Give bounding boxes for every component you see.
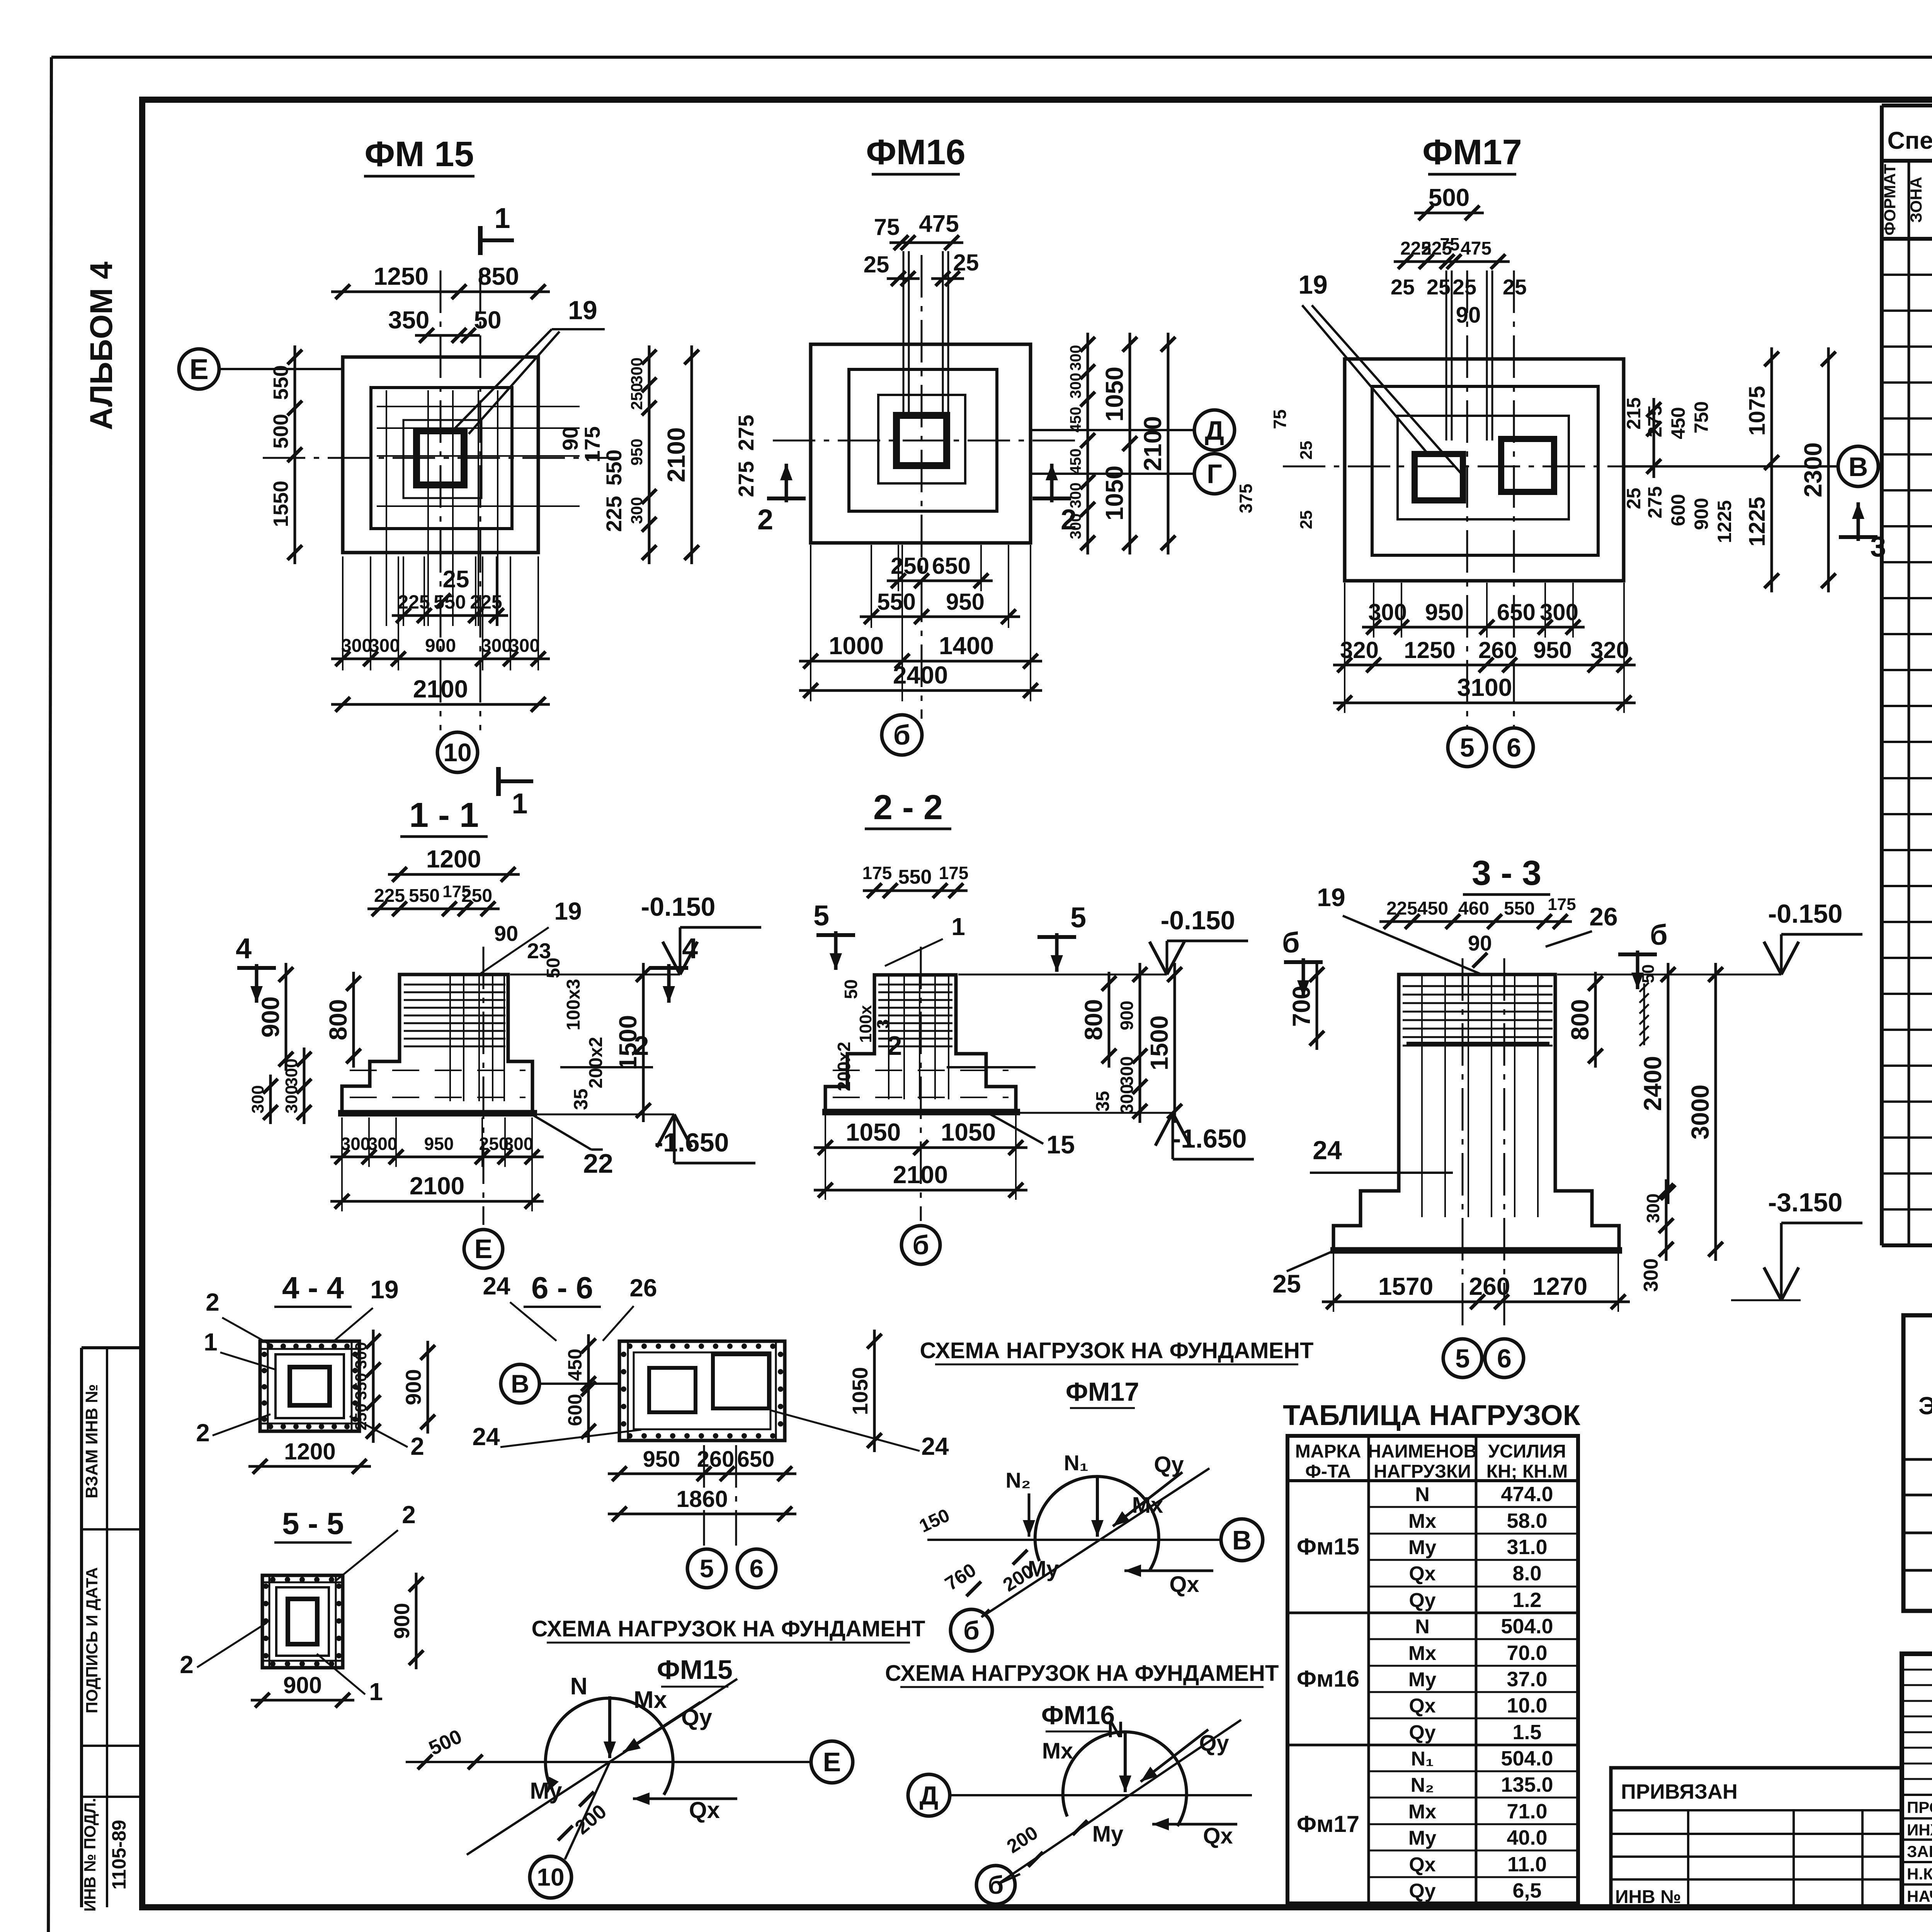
svg-text:900: 900 bbox=[389, 1603, 414, 1639]
svg-text:450: 450 bbox=[1417, 898, 1448, 919]
svg-text:300: 300 bbox=[282, 1058, 301, 1087]
svg-text:500: 500 bbox=[269, 414, 293, 449]
svg-text:-1.650: -1.650 bbox=[1172, 1124, 1247, 1153]
svg-text:б: б bbox=[1282, 927, 1300, 959]
svg-text:Qу: Qу bbox=[1154, 1452, 1184, 1477]
svg-text:ПОДПИСЬ И ДАТА: ПОДПИСЬ И ДАТА bbox=[83, 1567, 101, 1713]
svg-text:950: 950 bbox=[946, 589, 985, 615]
svg-text:225: 225 bbox=[374, 886, 405, 906]
svg-text:УСИЛИЯ: УСИЛИЯ bbox=[1488, 1441, 1566, 1462]
svg-text:10.0: 10.0 bbox=[1507, 1694, 1547, 1717]
svg-text:ЗАВ.ГРУП: ЗАВ.ГРУП bbox=[1907, 1842, 1932, 1861]
svg-text:1050: 1050 bbox=[941, 1118, 996, 1146]
svg-text:Фм15: Фм15 bbox=[1297, 1534, 1359, 1560]
svg-text:1400: 1400 bbox=[939, 632, 994, 660]
svg-text:ИНВ №: ИНВ № bbox=[1615, 1887, 1681, 1907]
svg-text:900: 900 bbox=[257, 997, 284, 1038]
svg-text:474.0: 474.0 bbox=[1501, 1483, 1553, 1506]
svg-text:24: 24 bbox=[921, 1432, 949, 1460]
svg-text:МАРКА: МАРКА bbox=[1295, 1441, 1361, 1462]
svg-text:ЗОНА: ЗОНА bbox=[1907, 177, 1925, 223]
svg-text:950: 950 bbox=[424, 1134, 454, 1154]
svg-text:6: 6 bbox=[1497, 1344, 1512, 1373]
svg-text:1270: 1270 bbox=[1532, 1272, 1587, 1300]
svg-text:175: 175 bbox=[939, 863, 969, 883]
svg-text:Мх: Мх bbox=[1408, 1510, 1436, 1532]
svg-text:225: 225 bbox=[398, 591, 430, 613]
svg-text:90: 90 bbox=[558, 427, 582, 451]
svg-text:950: 950 bbox=[643, 1447, 680, 1472]
svg-text:1.5: 1.5 bbox=[1512, 1721, 1541, 1744]
svg-text:Qу: Qу bbox=[1409, 1880, 1435, 1902]
svg-text:900: 900 bbox=[1117, 1001, 1137, 1031]
svg-text:2: 2 bbox=[1061, 503, 1077, 536]
svg-text:Qх: Qх bbox=[1169, 1572, 1199, 1597]
svg-text:Д: Д bbox=[1205, 415, 1224, 446]
svg-text:550: 550 bbox=[877, 589, 916, 615]
svg-text:Qу: Qу bbox=[1409, 1589, 1435, 1612]
svg-text:450: 450 bbox=[1667, 407, 1689, 439]
svg-text:В: В bbox=[1849, 452, 1868, 482]
svg-text:б: б bbox=[1650, 919, 1668, 951]
svg-text:Му: Му bbox=[1092, 1821, 1124, 1847]
svg-text:2: 2 bbox=[206, 1288, 219, 1316]
svg-text:2100: 2100 bbox=[410, 1172, 464, 1200]
svg-text:275: 275 bbox=[734, 415, 758, 451]
svg-text:ИНЖ.1КАТ: ИНЖ.1КАТ bbox=[1907, 1821, 1932, 1839]
svg-text:25: 25 bbox=[1297, 510, 1316, 529]
svg-text:200х2: 200х2 bbox=[834, 1042, 854, 1091]
svg-text:275: 275 bbox=[1644, 486, 1666, 518]
svg-text:1550: 1550 bbox=[269, 481, 293, 527]
svg-text:б: б bbox=[988, 1871, 1004, 1899]
svg-text:25: 25 bbox=[864, 252, 889, 277]
svg-text:ЭЛЕМЕНТА: ЭЛЕМЕНТА bbox=[1918, 1392, 1932, 1420]
svg-text:31.0: 31.0 bbox=[1507, 1536, 1547, 1559]
svg-text:ПРИВЯЗАН: ПРИВЯЗАН bbox=[1621, 1780, 1738, 1803]
svg-text:300: 300 bbox=[1067, 345, 1084, 371]
svg-text:300: 300 bbox=[509, 636, 540, 656]
svg-text:1075: 1075 bbox=[1745, 386, 1770, 435]
svg-text:19: 19 bbox=[554, 897, 582, 925]
svg-text:1050: 1050 bbox=[848, 1367, 872, 1415]
svg-text:В: В bbox=[1232, 1525, 1252, 1555]
svg-text:1105-89: 1105-89 bbox=[108, 1820, 130, 1890]
svg-text:650: 650 bbox=[932, 553, 971, 579]
svg-text:1050: 1050 bbox=[1100, 367, 1128, 422]
svg-text:300: 300 bbox=[369, 636, 400, 656]
svg-text:800: 800 bbox=[1566, 999, 1594, 1041]
svg-text:1: 1 bbox=[512, 787, 527, 820]
svg-text:950: 950 bbox=[1425, 599, 1464, 625]
svg-text:ФМ17: ФМ17 bbox=[1422, 133, 1522, 172]
svg-text:460: 460 bbox=[1458, 898, 1489, 919]
svg-text:Му: Му bbox=[1408, 1668, 1436, 1691]
svg-text:300: 300 bbox=[1117, 1084, 1137, 1114]
svg-text:350: 350 bbox=[352, 1373, 370, 1400]
svg-text:3000: 3000 bbox=[1686, 1085, 1714, 1139]
svg-text:б: б bbox=[893, 720, 910, 751]
svg-text:2: 2 bbox=[634, 1031, 649, 1061]
svg-text:300: 300 bbox=[368, 1134, 398, 1154]
svg-text:800: 800 bbox=[1080, 999, 1107, 1041]
svg-text:500: 500 bbox=[1429, 184, 1470, 211]
svg-text:19: 19 bbox=[1298, 270, 1328, 299]
svg-text:320: 320 bbox=[1340, 637, 1379, 663]
svg-text:275: 275 bbox=[1644, 405, 1666, 437]
svg-text:СХЕМА НАГРУЗОК НА ФУНДАМЕНТ: СХЕМА НАГРУЗОК НА ФУНДАМЕНТ bbox=[920, 1338, 1314, 1363]
svg-text:4: 4 bbox=[682, 932, 698, 964]
svg-text:СХЕМА НАГРУЗОК НА ФУНДАМЕНТ: СХЕМА НАГРУЗОК НА ФУНДАМЕНТ bbox=[885, 1661, 1279, 1686]
svg-text:Е: Е bbox=[189, 353, 208, 385]
svg-text:35: 35 bbox=[570, 1088, 592, 1110]
svg-text:19: 19 bbox=[370, 1275, 398, 1304]
svg-text:90: 90 bbox=[494, 921, 518, 946]
svg-text:75: 75 bbox=[874, 214, 900, 240]
svg-text:Е: Е bbox=[823, 1747, 841, 1777]
svg-text:Му: Му bbox=[1408, 1827, 1436, 1849]
svg-text:Фм16: Фм16 bbox=[1297, 1666, 1359, 1692]
svg-text:550: 550 bbox=[898, 866, 932, 888]
svg-text:АЛЬБОМ 4: АЛЬБОМ 4 bbox=[84, 262, 119, 430]
svg-text:ТАБЛИЦА НАГРУЗОК: ТАБЛИЦА НАГРУЗОК bbox=[1283, 1399, 1581, 1431]
svg-text:Мх: Мх bbox=[1132, 1493, 1163, 1518]
svg-text:N: N bbox=[1107, 1717, 1124, 1742]
svg-text:950: 950 bbox=[1533, 637, 1572, 663]
svg-text:175: 175 bbox=[580, 426, 604, 462]
svg-text:300: 300 bbox=[481, 636, 512, 656]
svg-text:3: 3 bbox=[874, 1019, 893, 1029]
svg-text:2: 2 bbox=[887, 1031, 902, 1061]
svg-text:225: 225 bbox=[470, 591, 502, 613]
svg-text:250: 250 bbox=[352, 1403, 370, 1430]
svg-text:50: 50 bbox=[474, 306, 501, 334]
svg-text:Н.КОНТР.: Н.КОНТР. bbox=[1907, 1865, 1932, 1883]
svg-text:25: 25 bbox=[1297, 441, 1316, 460]
svg-text:300: 300 bbox=[341, 636, 372, 656]
svg-text:350: 350 bbox=[388, 306, 430, 334]
svg-text:37.0: 37.0 bbox=[1507, 1668, 1547, 1691]
svg-text:19: 19 bbox=[568, 296, 597, 325]
svg-text:6: 6 bbox=[1507, 733, 1521, 762]
svg-text:10: 10 bbox=[443, 738, 471, 767]
svg-text:650: 650 bbox=[1497, 599, 1536, 625]
svg-text:450: 450 bbox=[1067, 449, 1084, 474]
svg-text:25: 25 bbox=[1427, 275, 1451, 299]
svg-text:Мх: Мх bbox=[634, 1687, 667, 1713]
svg-text:504.0: 504.0 bbox=[1501, 1615, 1553, 1638]
svg-text:250: 250 bbox=[891, 553, 929, 579]
svg-text:НАЧ.ОТД.: НАЧ.ОТД. bbox=[1907, 1887, 1932, 1905]
svg-text:ФМ16: ФМ16 bbox=[1041, 1701, 1115, 1730]
svg-text:58.0: 58.0 bbox=[1507, 1509, 1547, 1532]
svg-text:6,5: 6,5 bbox=[1512, 1879, 1541, 1902]
svg-text:3100: 3100 bbox=[1457, 673, 1512, 701]
svg-text:24: 24 bbox=[472, 1423, 500, 1451]
svg-text:Ф-ТА: Ф-ТА bbox=[1305, 1461, 1351, 1482]
svg-text:300: 300 bbox=[1640, 1259, 1662, 1292]
svg-text:Фм17: Фм17 bbox=[1297, 1811, 1359, 1837]
svg-text:Qу: Qу bbox=[681, 1704, 713, 1730]
svg-text:900: 900 bbox=[283, 1672, 322, 1698]
svg-text:1500: 1500 bbox=[1145, 1015, 1173, 1070]
svg-text:10: 10 bbox=[537, 1863, 564, 1891]
svg-text:5: 5 bbox=[700, 1554, 714, 1583]
svg-text:6: 6 bbox=[750, 1554, 764, 1583]
svg-text:1: 1 bbox=[951, 913, 965, 940]
svg-text:26: 26 bbox=[1589, 902, 1617, 931]
svg-text:Му: Му bbox=[1408, 1536, 1436, 1559]
svg-text:НАГРУЗКИ: НАГРУЗКИ bbox=[1374, 1461, 1471, 1482]
svg-text:2: 2 bbox=[757, 503, 773, 536]
svg-text:8.0: 8.0 bbox=[1512, 1562, 1541, 1585]
svg-text:В: В bbox=[511, 1369, 529, 1398]
svg-text:Qу: Qу bbox=[1199, 1731, 1229, 1756]
svg-text:100х3: 100х3 bbox=[563, 979, 584, 1030]
svg-text:Спецификация монолитных фунд: Спецификация монолитных фундаментов Фм15… bbox=[1887, 127, 1932, 154]
svg-text:Му: Му bbox=[530, 1778, 562, 1804]
svg-text:700: 700 bbox=[1287, 986, 1315, 1027]
svg-text:300: 300 bbox=[1067, 373, 1084, 399]
svg-text:900: 900 bbox=[425, 636, 456, 656]
svg-text:900: 900 bbox=[401, 1369, 425, 1405]
svg-text:450: 450 bbox=[1067, 407, 1084, 433]
svg-text:550: 550 bbox=[434, 591, 466, 613]
svg-text:550: 550 bbox=[1504, 898, 1535, 919]
svg-text:2: 2 bbox=[196, 1419, 210, 1447]
svg-text:б: б bbox=[912, 1230, 929, 1260]
svg-text:300: 300 bbox=[1117, 1056, 1137, 1086]
svg-text:4 - 4: 4 - 4 bbox=[282, 1270, 344, 1305]
svg-text:Qх: Qх bbox=[1203, 1823, 1233, 1849]
svg-text:N₂: N₂ bbox=[1005, 1468, 1031, 1492]
svg-text:4: 4 bbox=[236, 932, 252, 964]
svg-text:26: 26 bbox=[629, 1274, 657, 1302]
svg-text:ФМ15: ФМ15 bbox=[657, 1655, 733, 1685]
svg-text:550: 550 bbox=[409, 886, 440, 906]
svg-text:300: 300 bbox=[1643, 1194, 1663, 1223]
svg-text:-0.150: -0.150 bbox=[1161, 906, 1235, 935]
svg-text:2: 2 bbox=[402, 1501, 416, 1529]
svg-text:24: 24 bbox=[483, 1272, 510, 1300]
svg-text:2400: 2400 bbox=[1639, 1056, 1667, 1111]
svg-text:Е: Е bbox=[474, 1234, 493, 1264]
svg-text:260: 260 bbox=[1478, 637, 1517, 663]
svg-text:1200: 1200 bbox=[426, 845, 481, 873]
svg-text:35: 35 bbox=[1093, 1091, 1113, 1111]
svg-text:Qх: Qх bbox=[1409, 1695, 1435, 1717]
svg-text:-1.650: -1.650 bbox=[655, 1128, 729, 1157]
svg-text:300: 300 bbox=[628, 357, 646, 384]
svg-text:40.0: 40.0 bbox=[1507, 1826, 1547, 1849]
svg-text:75: 75 bbox=[1270, 409, 1290, 429]
svg-text:3: 3 bbox=[1870, 531, 1886, 563]
svg-text:Д: Д bbox=[920, 1781, 938, 1810]
svg-text:25: 25 bbox=[1391, 275, 1415, 299]
svg-text:550: 550 bbox=[602, 449, 626, 485]
svg-text:1.2: 1.2 bbox=[1512, 1588, 1541, 1612]
svg-text:22: 22 bbox=[583, 1148, 613, 1179]
svg-text:175: 175 bbox=[1548, 895, 1576, 914]
svg-text:90: 90 bbox=[1456, 303, 1481, 328]
svg-text:15: 15 bbox=[1046, 1130, 1075, 1159]
svg-text:N₁: N₁ bbox=[1064, 1451, 1088, 1475]
svg-text:N₂: N₂ bbox=[1411, 1774, 1434, 1796]
svg-text:1000: 1000 bbox=[829, 632, 884, 660]
svg-text:-0.150: -0.150 bbox=[1768, 899, 1843, 929]
svg-text:1: 1 bbox=[204, 1328, 218, 1356]
svg-text:1050: 1050 bbox=[846, 1118, 901, 1146]
svg-text:б: б bbox=[963, 1616, 980, 1645]
svg-text:175: 175 bbox=[862, 863, 892, 883]
svg-text:175: 175 bbox=[442, 882, 471, 901]
svg-text:5: 5 bbox=[813, 900, 829, 932]
svg-text:25: 25 bbox=[443, 566, 469, 593]
svg-text:25: 25 bbox=[1452, 275, 1476, 299]
svg-text:300: 300 bbox=[282, 1085, 301, 1113]
svg-text:300: 300 bbox=[341, 1134, 371, 1154]
svg-text:Qу: Qу bbox=[1409, 1721, 1435, 1744]
svg-text:2300: 2300 bbox=[1799, 442, 1827, 497]
svg-text:275: 275 bbox=[734, 461, 758, 497]
svg-text:Qх: Qх bbox=[1409, 1563, 1435, 1585]
svg-text:2100: 2100 bbox=[413, 675, 468, 703]
svg-text:25: 25 bbox=[1272, 1269, 1301, 1298]
svg-text:300: 300 bbox=[352, 1342, 370, 1369]
svg-text:70.0: 70.0 bbox=[1507, 1641, 1547, 1665]
svg-text:250: 250 bbox=[628, 383, 646, 410]
svg-text:200х2: 200х2 bbox=[586, 1037, 606, 1088]
svg-text:1: 1 bbox=[494, 202, 510, 234]
svg-text:300: 300 bbox=[248, 1085, 267, 1113]
svg-text:N: N bbox=[570, 1673, 588, 1700]
svg-text:375: 375 bbox=[1236, 484, 1256, 514]
svg-text:1: 1 bbox=[369, 1678, 383, 1706]
svg-text:3 - 3: 3 - 3 bbox=[1472, 854, 1541, 893]
svg-text:СХЕМА НАГРУЗОК НА ФУНДАМЕНТ: СХЕМА НАГРУЗОК НА ФУНДАМЕНТ bbox=[532, 1616, 925, 1641]
svg-text:475: 475 bbox=[1461, 238, 1492, 259]
svg-text:5: 5 bbox=[1070, 901, 1086, 934]
svg-text:950: 950 bbox=[628, 439, 646, 466]
svg-text:5: 5 bbox=[1460, 733, 1475, 762]
svg-text:N₁: N₁ bbox=[1411, 1748, 1434, 1770]
svg-text:ВЗАМ ИНВ №: ВЗАМ ИНВ № bbox=[82, 1384, 101, 1498]
svg-text:2100: 2100 bbox=[1139, 416, 1167, 471]
svg-text:ПРОВЕР.: ПРОВЕР. bbox=[1907, 1798, 1932, 1816]
svg-text:2100: 2100 bbox=[662, 427, 690, 482]
svg-text:N: N bbox=[1415, 1483, 1430, 1506]
svg-text:475: 475 bbox=[919, 211, 959, 237]
svg-text:260: 260 bbox=[697, 1447, 735, 1472]
svg-text:ФМ17: ФМ17 bbox=[1066, 1377, 1139, 1406]
svg-text:550: 550 bbox=[269, 365, 293, 400]
svg-text:-3.150: -3.150 bbox=[1768, 1188, 1843, 1217]
svg-text:75: 75 bbox=[1440, 234, 1459, 254]
svg-text:Г: Г bbox=[1207, 459, 1222, 489]
svg-text:ИНВ № ПОДЛ.: ИНВ № ПОДЛ. bbox=[81, 1798, 99, 1912]
svg-text:650: 650 bbox=[737, 1447, 775, 1472]
svg-text:КН; КН.М: КН; КН.М bbox=[1486, 1461, 1568, 1482]
svg-text:Qх: Qх bbox=[1409, 1854, 1435, 1876]
svg-text:1225: 1225 bbox=[1714, 500, 1735, 543]
svg-text:135.0: 135.0 bbox=[1501, 1773, 1553, 1796]
svg-text:750: 750 bbox=[1690, 401, 1712, 433]
svg-text:Мх: Мх bbox=[1408, 1642, 1436, 1665]
svg-text:ФОРМАТ: ФОРМАТ bbox=[1881, 164, 1899, 235]
svg-text:24: 24 bbox=[1313, 1136, 1342, 1165]
svg-text:2: 2 bbox=[180, 1651, 194, 1679]
svg-text:900: 900 bbox=[1690, 498, 1712, 530]
svg-text:215: 215 bbox=[1623, 397, 1645, 429]
svg-text:1570: 1570 bbox=[1378, 1272, 1433, 1300]
svg-text:11.0: 11.0 bbox=[1507, 1853, 1547, 1876]
svg-text:2 - 2: 2 - 2 bbox=[873, 788, 943, 827]
svg-text:504.0: 504.0 bbox=[1501, 1747, 1553, 1770]
svg-text:1200: 1200 bbox=[284, 1439, 335, 1464]
svg-text:1860: 1860 bbox=[676, 1486, 728, 1512]
svg-text:Мх: Мх bbox=[1408, 1801, 1436, 1823]
svg-text:100х: 100х bbox=[856, 1005, 875, 1043]
svg-text:N: N bbox=[1415, 1616, 1430, 1638]
svg-text:6 - 6: 6 - 6 bbox=[531, 1270, 593, 1305]
svg-text:1250: 1250 bbox=[374, 262, 429, 290]
svg-text:225: 225 bbox=[1386, 898, 1417, 919]
svg-text:600: 600 bbox=[1667, 494, 1689, 526]
svg-text:450: 450 bbox=[564, 1349, 586, 1381]
svg-text:25: 25 bbox=[1503, 275, 1527, 299]
svg-text:1225: 1225 bbox=[1745, 497, 1770, 546]
svg-text:Qх: Qх bbox=[689, 1797, 720, 1823]
svg-text:ФМ 15: ФМ 15 bbox=[364, 134, 474, 174]
svg-text:2400: 2400 bbox=[893, 661, 948, 689]
svg-text:Мх: Мх bbox=[1042, 1738, 1073, 1764]
svg-text:50: 50 bbox=[841, 979, 861, 999]
svg-text:ФМ16: ФМ16 bbox=[866, 133, 966, 172]
svg-text:225: 225 bbox=[602, 496, 626, 532]
svg-text:300: 300 bbox=[628, 497, 646, 524]
svg-text:НАИМЕНОВ: НАИМЕНОВ bbox=[1368, 1441, 1477, 1462]
svg-text:5: 5 bbox=[1455, 1344, 1470, 1373]
svg-text:19: 19 bbox=[1317, 883, 1345, 912]
svg-text:90: 90 bbox=[1468, 931, 1492, 955]
svg-text:600: 600 bbox=[564, 1394, 586, 1426]
svg-text:2: 2 bbox=[410, 1432, 424, 1460]
svg-text:1250: 1250 bbox=[1404, 637, 1455, 663]
svg-text:300: 300 bbox=[504, 1134, 534, 1154]
svg-text:71.0: 71.0 bbox=[1507, 1800, 1547, 1823]
svg-text:-0.150: -0.150 bbox=[641, 892, 716, 922]
svg-text:25: 25 bbox=[953, 250, 979, 276]
svg-text:1 - 1: 1 - 1 bbox=[409, 796, 479, 835]
svg-text:850: 850 bbox=[478, 262, 519, 290]
svg-text:800: 800 bbox=[324, 999, 352, 1041]
svg-text:5 - 5: 5 - 5 bbox=[282, 1506, 344, 1541]
svg-text:25: 25 bbox=[1623, 488, 1645, 509]
